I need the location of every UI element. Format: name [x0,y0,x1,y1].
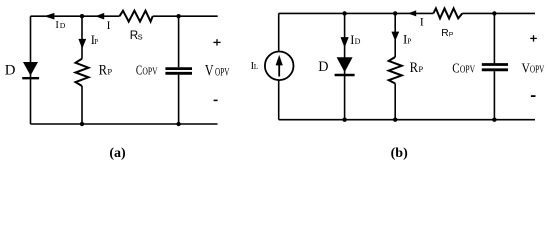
svg-text:D: D [60,21,66,30]
svg-text:I: I [55,20,59,31]
wire: top rail right of RS (a) [153,15,218,17]
svg-text:OPV: OPV [530,65,545,76]
arrow current IP (a) [78,39,86,49]
svg-text:OPV: OPV [460,65,476,76]
wire: diode branch (b) [344,13,346,119]
svg-text:OPV: OPV [215,67,230,79]
minus sign (a) [214,99,218,101]
wire: top rail left of RP series (b) [279,12,434,14]
node dot top capacitor branch (b) [492,11,496,15]
wire: capacitor branch upper (b) [493,13,495,63]
wire: shunt branch upper (a) [81,16,83,59]
node dot top capacitor branch (a) [176,14,180,18]
wire: capacitor branch lower (a) [178,75,180,124]
svg-text:P: P [449,31,454,38]
arrow current I (b) [408,10,417,16]
svg-text:P: P [407,37,411,46]
node dot top shunt branch (b) [393,11,397,15]
arrow current I (a) [95,13,104,20]
svg-text:R: R [99,63,108,79]
svg-text:S: S [138,33,143,42]
svg-text:V: V [205,63,214,80]
svg-text:P: P [107,67,112,77]
minus sign (b) [531,95,536,97]
svg-text:OPV: OPV [142,67,158,78]
wire: top rail right of RP series (b) [462,12,535,14]
capacitor COPV plates (b) [482,63,508,66]
svg-text:D: D [355,37,361,46]
node dot bottom diode branch (b) [342,118,346,122]
svg-text:R: R [410,60,419,76]
svg-text:L: L [254,62,259,71]
diode D (b) [337,57,353,72]
wire: left rail (a) [30,16,32,124]
wire: top rail left of RS (a) [31,15,120,17]
node dot top shunt (a) [80,14,84,18]
wire: shunt branch upper (b) [394,13,396,57]
wire: capacitor branch lower (b) [493,71,495,120]
svg-text:C: C [452,61,460,76]
resistor RP shunt (b) [389,57,402,84]
svg-text:D: D [318,59,328,75]
svg-text:R: R [441,28,448,39]
node dot bottom capacitor branch (b) [492,118,496,122]
svg-text:D: D [5,63,16,79]
wire: capacitor branch upper (a) [178,16,180,67]
svg-text:P: P [418,64,423,74]
arrow current IP (b) [391,32,399,41]
diode D (a) [23,62,38,76]
arrow current ID (a) [44,13,54,20]
wire: shunt branch lower (a) [81,86,83,124]
svg-text:I: I [420,14,424,28]
plus sign (b) [530,35,537,41]
svg-text:(a): (a) [109,146,126,161]
svg-text:I: I [107,20,111,32]
current source IL (b) [265,52,294,81]
node dot bottom shunt branch (b) [393,118,397,122]
node dot top diode branch (b) [342,11,346,15]
resistor RP (a) [76,59,89,86]
plus sign (a) [213,39,220,45]
capacitor COPV plates (a) [165,67,192,70]
svg-text:P: P [94,38,98,46]
svg-text:(b): (b) [391,146,408,161]
wire: shunt branch lower (b) [394,84,396,120]
wire: source branch lower (b) [278,80,280,120]
node dot bottom shunt (a) [80,122,84,126]
wire: bottom rail (b) [279,119,535,121]
node dot bottom capacitor branch (a) [176,122,180,126]
wire: bottom rail (a) [31,123,218,125]
resistor RP series (b) [433,8,462,18]
resistor RS (a) [120,11,153,22]
arrow current ID (b) [341,37,349,48]
wire: source branch upper (b) [278,13,280,51]
